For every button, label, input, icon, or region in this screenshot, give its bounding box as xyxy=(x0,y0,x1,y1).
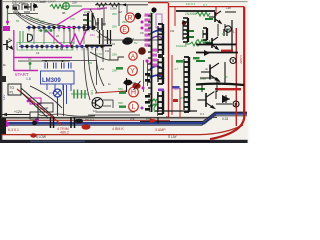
blob: maroon circle xyxy=(138,47,146,55)
connector J8 pads right of lamps xyxy=(145,73,150,111)
meter P black right low xyxy=(233,101,239,107)
wire: inter-row verticals xyxy=(34,29,84,44)
wire: red vertical x216 top xyxy=(215,7,217,16)
resistor R3 green top left xyxy=(50,5,64,9)
wire: wavy bus top xyxy=(38,114,95,116)
transistor Q1 green blob xyxy=(63,3,70,10)
green squiggle right low xyxy=(149,100,156,112)
green vertical wire left xyxy=(7,5,9,25)
green component small mid2 xyxy=(119,92,126,94)
svg-text:tr2: tr2 xyxy=(36,51,40,55)
connector J4 comb xyxy=(158,57,163,84)
svg-text:P: P xyxy=(235,102,238,107)
red bar R32 xyxy=(215,88,241,90)
wire: magenta on row1 xyxy=(60,26,75,28)
svg-text:2.2: 2.2 xyxy=(49,91,54,95)
svg-text:1.8: 1.8 xyxy=(26,77,31,81)
connector J6 comb xyxy=(158,90,163,114)
wire: black vertical x225 low xyxy=(224,62,226,84)
capacitors on bus row y46.4 xyxy=(20,45,103,51)
svg-text:12V: 12V xyxy=(2,95,6,100)
transistor Q5 xyxy=(198,92,215,109)
node dot top-left xyxy=(6,5,9,8)
wire: bottom bus dark2 xyxy=(2,117,212,120)
wire: red vertical rail x168 xyxy=(168,3,170,118)
wire: red mid vertical x147 xyxy=(147,62,149,86)
svg-text:2u2: 2u2 xyxy=(174,87,179,91)
capacitor C2 xyxy=(95,18,106,30)
capacitor C9 blue row above LM309 xyxy=(45,63,71,69)
node dot big black xyxy=(151,7,156,12)
wire: black thick mid y44 xyxy=(85,45,112,47)
svg-text:1K: 1K xyxy=(36,17,40,21)
wire: red vertical x143 xyxy=(143,60,145,92)
wire: magenta horizontal y57.5 xyxy=(14,57,72,59)
svg-text:47K: 47K xyxy=(70,17,75,21)
net box green around bus row2 xyxy=(17,43,73,51)
svg-text:0.47 250v: 0.47 250v xyxy=(12,1,26,5)
wire: red diagonal bottom-left xyxy=(17,89,62,125)
blob: black smudge xyxy=(122,37,133,44)
lamp E xyxy=(120,25,128,34)
connector J1 comb xyxy=(158,24,163,55)
svg-text:4u: 4u xyxy=(205,67,209,71)
lamp H xyxy=(129,87,139,97)
wire: K7 to lamps xyxy=(103,100,113,108)
lamp blue crossed circle xyxy=(54,89,62,97)
box PML small xyxy=(30,112,38,119)
green component right mid xyxy=(185,42,200,46)
black blob left edge low xyxy=(0,118,6,134)
green dots top right area xyxy=(40,29,53,32)
magenta blob left low xyxy=(3,121,9,127)
capacitor C3 xyxy=(97,20,99,22)
svg-text:2W: 2W xyxy=(88,61,93,65)
label 15M 3.5M xyxy=(97,6,117,10)
green component small mid3 xyxy=(119,106,126,108)
wire: dotted bus row y27.4 xyxy=(26,26,97,28)
svg-text:1R: 1R xyxy=(224,75,228,79)
wire: black right y44 thick xyxy=(196,44,236,46)
loop P shape dark xyxy=(28,34,33,42)
svg-text:0.5: 0.5 xyxy=(130,117,135,121)
top border line xyxy=(2,0,248,3)
lamp L xyxy=(129,102,139,112)
wire: black vertical x218 link xyxy=(217,24,219,36)
svg-text:H: H xyxy=(131,88,136,97)
red bar R31 xyxy=(221,50,233,52)
red blob low-left xyxy=(82,124,91,129)
wire: bottom bus blue thick xyxy=(2,114,247,124)
magenta small box mid-left low xyxy=(30,98,41,104)
bottom scan edge band xyxy=(0,140,250,143)
resistor R2 3.5M xyxy=(109,3,120,7)
wire: top-left bus y13 xyxy=(8,13,38,15)
svg-text:R: R xyxy=(128,15,133,22)
wire: blue vertical pair xyxy=(64,85,67,116)
wire: black diagonal fan bottom-left xyxy=(21,86,62,118)
svg-text:25K: 25K xyxy=(112,25,117,29)
svg-text:PK 0.1: PK 0.1 xyxy=(85,118,95,122)
svg-text:1K: 1K xyxy=(222,32,226,36)
wire: magenta vertical main xyxy=(13,30,15,71)
svg-text:0.1: 0.1 xyxy=(150,11,154,15)
green component small mid xyxy=(116,67,123,70)
wire: magenta horizontal y70.5 xyxy=(14,70,38,72)
diode D3 red low xyxy=(150,118,158,124)
svg-text:TO: TO xyxy=(10,86,15,90)
resistor R1 15M xyxy=(96,3,107,7)
capacitor C6 on bus xyxy=(51,117,54,128)
svg-text:461: 461 xyxy=(90,90,94,95)
IC U2 LM309 box xyxy=(41,71,75,84)
svg-text:25K: 25K xyxy=(112,12,117,16)
diode D1 black blob xyxy=(123,78,136,92)
svg-text:LM309: LM309 xyxy=(42,78,61,84)
resistor R4 green right top xyxy=(196,12,210,16)
colored rects right column xyxy=(158,57,200,91)
lamp Y xyxy=(128,66,138,76)
red blob bottom left xyxy=(30,133,36,137)
wire: magenta diagonal to top xyxy=(57,8,107,25)
relay contacts K1 xyxy=(13,4,30,15)
wire: blue hook arcs lower xyxy=(150,66,164,79)
wire: line above LM309 xyxy=(42,61,97,86)
capacitor C7 on bus xyxy=(71,117,75,128)
svg-text:6V: 6V xyxy=(134,41,138,45)
svg-text:25K: 25K xyxy=(40,0,45,4)
svg-text:1W: 1W xyxy=(170,29,175,33)
paper background xyxy=(0,0,250,143)
svg-text:2W: 2W xyxy=(100,67,105,71)
label dark bottom texts xyxy=(36,117,228,139)
label 25K green1 xyxy=(112,12,117,29)
diode D5 right xyxy=(222,95,230,103)
wire: red right border rail xyxy=(210,7,244,140)
green dot x30 y63 xyxy=(29,62,32,65)
wire: purple arcs xyxy=(150,36,162,40)
magenta blob left low2 xyxy=(35,118,39,122)
capacitor C10 right of H xyxy=(224,29,227,36)
wire: bottom bus red xyxy=(2,120,170,121)
wire: blue arc1 xyxy=(152,31,164,34)
wire: left black horizontal y62 xyxy=(18,60,70,62)
wire: magenta zigzag big xyxy=(47,27,88,46)
svg-text:6 AMP: 6 AMP xyxy=(239,55,243,64)
svg-text:0.1: 0.1 xyxy=(200,112,204,116)
svg-text:HF: HF xyxy=(28,57,32,61)
green labels mid xyxy=(96,20,206,105)
label +12V arrow xyxy=(2,110,30,116)
wire: verticals top center xyxy=(104,5,127,26)
connector J3 comb xyxy=(203,28,207,40)
label red bottom row xyxy=(8,127,166,135)
magenta dots mid right xyxy=(141,59,153,109)
svg-text:2N3055: 2N3055 xyxy=(185,12,196,16)
arrow junction dot xyxy=(122,3,126,6)
wire: red top rail xyxy=(148,2,168,4)
wire: black vertical x232 xyxy=(231,20,233,50)
svg-text:56K: 56K xyxy=(118,87,123,91)
left scan edge band xyxy=(0,0,2,143)
green text marks left xyxy=(16,16,45,24)
diode D4 black blob low-left xyxy=(75,119,83,124)
svg-text:5 LOW: 5 LOW xyxy=(36,135,46,139)
svg-text:50: 50 xyxy=(16,19,20,23)
meter V black right mid xyxy=(230,58,236,64)
diode D2 red blob xyxy=(132,81,140,90)
IC U3 winding bars xyxy=(83,13,93,30)
capacitors on bus row y27.4 xyxy=(27,26,95,32)
wire: right transistor links xyxy=(216,12,236,99)
svg-text:1W: 1W xyxy=(105,49,110,53)
wire: bottom bus black above blue xyxy=(140,112,247,121)
blob: dark red small xyxy=(182,21,186,25)
wire: green vertical x30 xyxy=(29,63,31,71)
diode D6 right top xyxy=(204,50,210,56)
wire: curve to lamp A xyxy=(90,52,124,60)
svg-text:3 AMP: 3 AMP xyxy=(155,128,166,132)
connector J5 comb xyxy=(184,57,189,112)
magenta box left y26 xyxy=(3,26,10,31)
blue vertical from lamp xyxy=(57,97,59,116)
svg-text:6B: 6B xyxy=(62,11,66,15)
label noise top row2 xyxy=(12,0,56,4)
svg-text:0.33: 0.33 xyxy=(222,117,228,121)
terminal box TB1 xyxy=(8,84,21,95)
svg-text:6.3 0.1: 6.3 0.1 xyxy=(8,128,19,132)
resistor R5 green low right xyxy=(151,99,157,106)
svg-text:4.7: 4.7 xyxy=(174,67,178,71)
node dots above box xyxy=(45,60,64,62)
svg-text:3.5M: 3.5M xyxy=(110,6,117,10)
wire: red vertical x180 low xyxy=(179,88,181,118)
svg-text:1K: 1K xyxy=(30,16,34,20)
label noise top row xyxy=(12,0,77,5)
wire: red vertical x172 xyxy=(171,55,173,115)
svg-text:1N4148: 1N4148 xyxy=(176,44,187,48)
svg-text:10: 10 xyxy=(112,42,116,46)
wire: red horizontal rail y6.6 xyxy=(168,6,244,8)
transistor Q2 xyxy=(209,11,221,23)
svg-text:1.5M: 1.5M xyxy=(86,19,93,23)
wire: black verticals center xyxy=(70,29,110,100)
label noise scattered xyxy=(3,2,231,121)
wire: Q5 links xyxy=(202,85,232,104)
resistor R4b green right xyxy=(196,40,210,44)
wire: dotted bus row y46.4 xyxy=(19,45,105,47)
svg-text:12v 0.1: 12v 0.1 xyxy=(186,2,196,6)
svg-text:480.2: 480.2 xyxy=(60,131,69,135)
capacitor C8 pair xyxy=(97,30,111,44)
transistor Q7 left xyxy=(3,40,13,50)
wire: black thick right y84 xyxy=(196,84,244,85)
wire: black thick y52.5 xyxy=(196,52,238,54)
right margin xyxy=(248,0,250,143)
svg-text:25K: 25K xyxy=(40,20,45,24)
wire: bottom bus black upper xyxy=(2,117,217,118)
svg-text:S LAY: S LAY xyxy=(168,135,178,139)
svg-text:25K: 25K xyxy=(122,20,127,24)
wire: fan curves from relay to bus xyxy=(15,13,64,26)
wire: black y111 right xyxy=(155,110,197,112)
svg-text:L: L xyxy=(132,102,136,111)
lamp A xyxy=(129,52,137,61)
svg-text:2K: 2K xyxy=(30,33,34,37)
svg-text:56K: 56K xyxy=(118,101,123,105)
dark rect corner left xyxy=(0,76,6,82)
capacitor C1 top xyxy=(28,3,38,11)
magenta dot on green wire xyxy=(6,21,9,24)
wire: red vertical x175 xyxy=(174,7,176,26)
label green right top xyxy=(185,4,208,17)
svg-text:16n: 16n xyxy=(90,33,95,37)
wire: green top to right xyxy=(70,5,82,7)
red bar small b xyxy=(173,99,178,102)
wire: red vertical x157 low xyxy=(157,92,159,116)
svg-text:8n: 8n xyxy=(3,63,7,67)
wire: green verticals x20 xyxy=(20,31,23,45)
svg-text:8P: 8P xyxy=(1,28,5,32)
svg-text:RMP: RMP xyxy=(40,106,49,111)
svg-text:V: V xyxy=(232,58,235,63)
wire: bottom bus black under blue xyxy=(2,116,247,125)
wire: red vertical rail x236 xyxy=(235,28,237,126)
node dot big black2 xyxy=(135,13,141,19)
wire: top line with resistors xyxy=(95,4,148,6)
node dot filled xyxy=(33,4,37,8)
connector J2 comb xyxy=(183,18,188,42)
svg-text:E: E xyxy=(122,27,126,34)
svg-text:15M: 15M xyxy=(97,6,103,10)
blue pin marks under LM309 xyxy=(47,84,71,92)
svg-text:PL: PL xyxy=(10,91,14,95)
lamp R (top mid) xyxy=(125,13,134,22)
transistor Q6 mid-left xyxy=(92,98,103,109)
svg-text:4 BM K: 4 BM K xyxy=(112,127,124,131)
svg-text:C9: C9 xyxy=(140,31,144,35)
svg-text:1M: 1M xyxy=(118,10,123,14)
connector J7 long strip with pink pads xyxy=(145,13,158,112)
svg-text:25K: 25K xyxy=(112,53,117,57)
node dot on bus xyxy=(32,121,37,126)
svg-text:tr: tr xyxy=(140,47,142,51)
transistor Q3 xyxy=(206,37,218,49)
red bar small a xyxy=(157,74,162,77)
wire: black thick top right xyxy=(176,10,215,12)
svg-text:+12V: +12V xyxy=(14,110,23,114)
meter H black right top xyxy=(225,26,231,32)
svg-text:2.2M: 2.2M xyxy=(84,10,91,14)
svg-text:25K: 25K xyxy=(72,0,77,4)
svg-text:50: 50 xyxy=(60,47,64,51)
svg-text:5u: 5u xyxy=(166,115,170,119)
wire: horizontal x104-163 y40 xyxy=(104,39,160,41)
green marks right column xyxy=(186,18,213,90)
box RAMP xyxy=(38,103,53,112)
svg-text:0.1: 0.1 xyxy=(203,4,208,8)
svg-text:1n: 1n xyxy=(108,82,112,86)
wire: diagonals top right of center xyxy=(90,9,112,40)
svg-text:22: 22 xyxy=(56,34,60,38)
capacitor C5 green pair xyxy=(71,90,88,99)
transistor Q4 xyxy=(201,63,219,81)
wire: bottom red rail xyxy=(2,125,243,135)
magenta connector right column xyxy=(141,14,163,30)
svg-text:Y: Y xyxy=(130,66,135,75)
svg-text:0.5A: 0.5A xyxy=(146,117,152,121)
wire: hook bottom center xyxy=(88,112,140,115)
wire: red wavy to lamp H xyxy=(95,91,126,93)
black bits top-left extra xyxy=(13,6,28,10)
svg-text:50: 50 xyxy=(96,21,100,25)
svg-text:+28: +28 xyxy=(226,6,231,10)
wire: black vertical x217 low xyxy=(200,78,217,92)
